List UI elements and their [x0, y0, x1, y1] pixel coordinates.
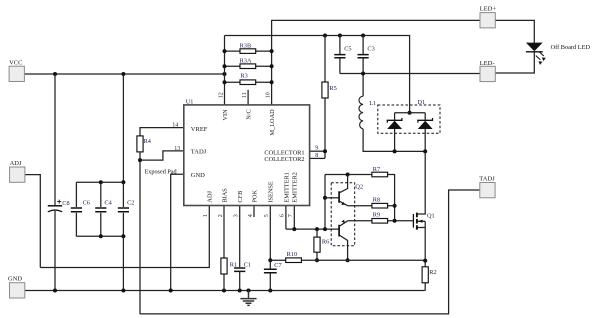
wire lower emitter — [340, 221, 348, 226]
resistor R3 — [240, 73, 256, 85]
wire D1 right diode leads — [424, 113, 426, 152]
junction gnd C8 — [53, 289, 57, 293]
capacitor C7 — [264, 262, 282, 273]
junction gnd C1 — [238, 289, 242, 293]
resistor R10 — [286, 251, 302, 263]
junction upper collector/R7 — [346, 173, 350, 177]
junction R2 top / Q1 source — [423, 259, 427, 263]
svg-text:C7: C7 — [274, 262, 281, 269]
wire Q1 drain — [418, 151, 426, 214]
svg-text:R8: R8 — [373, 196, 380, 203]
junction R8 right — [393, 204, 397, 208]
wire C-block top rail — [76, 181, 123, 183]
wire GND bus — [25, 290, 425, 292]
port VCC — [9, 59, 24, 81]
junction bottom rail C2 — [121, 234, 125, 238]
capacitor C6 — [71, 200, 90, 212]
wire pin 14 VREF — [140, 128, 184, 136]
junction upper base — [323, 196, 327, 200]
wire lower collector — [340, 235, 348, 260]
wire C5 branch — [339, 36, 341, 74]
U1 right pin labels — [264, 149, 304, 163]
junction pin7 bar — [292, 227, 296, 231]
port GND — [8, 275, 25, 298]
resistor R7 — [372, 166, 388, 177]
wire D1 left diode leads — [394, 113, 396, 152]
wire emitter bias bar — [286, 228, 339, 230]
wire VIN rail vertical pin 12 — [224, 36, 226, 105]
port LED- — [480, 60, 496, 82]
U1 bottom pin numbers (rotated) — [203, 214, 294, 217]
svg-text:R5: R5 — [329, 85, 336, 92]
port ADJ — [10, 160, 25, 182]
wire R3 row — [225, 81, 272, 83]
svg-text:LED+: LED+ — [480, 6, 497, 13]
wire upper collector — [340, 175, 348, 193]
svg-text:R9: R9 — [373, 211, 380, 218]
wire TADJ bottom run — [140, 190, 480, 314]
svg-text:ISENSE: ISENSE — [268, 181, 275, 202]
diode D1 (dual schottky, dashed package) — [378, 99, 440, 133]
junction gnd exposed pad — [169, 289, 173, 293]
U1 bottom pin name labels (rotated) — [207, 172, 299, 202]
wire pin 9 stub — [310, 150, 325, 152]
svg-text:C6: C6 — [83, 200, 90, 207]
capacitor C3 — [358, 45, 375, 57]
U1 top pin name labels (rotated) — [222, 109, 276, 136]
wire L1 bottom to anodes — [363, 129, 425, 152]
svg-text:GND: GND — [8, 275, 22, 282]
resistor R8 — [372, 196, 388, 208]
ground — [240, 291, 256, 306]
junction top rail C2 — [121, 180, 125, 184]
wire R8 row — [348, 205, 395, 207]
resistor R6 — [314, 237, 329, 252]
wire VCC rail — [25, 73, 225, 75]
junction bottom rail C4 — [99, 234, 103, 238]
capacitor C5 — [334, 45, 351, 57]
junction R9 right gate — [393, 219, 397, 223]
wire C8 branch — [54, 74, 56, 291]
capacitor C2 — [118, 200, 135, 212]
svg-text:C3: C3 — [367, 45, 374, 52]
svg-text:C4: C4 — [104, 200, 112, 207]
junction top rail C4 — [99, 180, 103, 184]
inductor L1 — [359, 96, 376, 129]
svg-text:N/C: N/C — [246, 109, 253, 120]
svg-text:R3B: R3B — [240, 42, 252, 49]
junction gnd R1 — [222, 289, 226, 293]
U1 pin number labels left/right — [172, 123, 318, 159]
wire R9 row gate — [348, 220, 414, 222]
port LED+ — [480, 6, 497, 28]
wire R2 leads — [424, 261, 426, 291]
wire sense row R10 — [270, 259, 425, 261]
LED (off board) — [526, 43, 591, 65]
junction R3A right — [270, 64, 274, 68]
svg-text:COLLECTOR2: COLLECTOR2 — [264, 156, 304, 163]
svg-text:D1: D1 — [417, 99, 425, 106]
resistor R2 — [422, 267, 437, 283]
wire Q1 body/source stubs — [418, 221, 426, 227]
svg-text:Q1: Q1 — [427, 212, 435, 219]
junction C3 bottom / L1 — [361, 72, 365, 76]
svg-text:CFB: CFB — [237, 191, 244, 203]
svg-text:2: 2 — [218, 214, 224, 217]
junction pin9/R5 — [323, 149, 327, 153]
svg-text:4: 4 — [248, 214, 254, 217]
wire C3-L1 branch — [362, 36, 364, 97]
junction gnd symbol — [247, 289, 251, 293]
svg-text:ADJ: ADJ — [10, 160, 22, 167]
wire R6 leads — [316, 229, 318, 260]
op-amp U1 (LED driver IC body) — [184, 99, 310, 206]
svg-text:TADJ: TADJ — [479, 176, 495, 183]
svg-text:Exposed Pad: Exposed Pad — [145, 168, 178, 175]
junction mirror vert bar — [323, 227, 327, 231]
junction VCC/VIN rail — [223, 72, 227, 76]
wire pin 4 stub — [253, 206, 255, 218]
wire pin 2 to R1 — [223, 206, 225, 291]
svg-text:R4: R4 — [144, 138, 152, 145]
transistor Q2 (dual PNP, dashed package) — [331, 183, 363, 246]
svg-text:LED-: LED- — [480, 60, 495, 67]
wire C-block bottom rail — [76, 235, 123, 237]
wire upper emitter — [340, 201, 348, 205]
svg-text:U1: U1 — [186, 99, 194, 106]
resistor R5 — [322, 82, 337, 98]
wire D1 cathode bar — [395, 112, 426, 114]
svg-text:Q2: Q2 — [355, 184, 363, 191]
resistor R9 — [372, 211, 388, 223]
junction gnd C7 — [268, 289, 272, 293]
junction R3B left — [223, 49, 227, 53]
svg-text:VREF: VREF — [191, 126, 208, 133]
capacitor C8 (polarized) — [48, 200, 70, 212]
resistor R1 — [221, 258, 237, 274]
svg-text:11: 11 — [242, 92, 248, 98]
junction R3 right — [270, 80, 274, 84]
wire C7 leads — [269, 260, 271, 290]
wire lamp to LED- — [495, 52, 534, 74]
svg-text:C1: C1 — [244, 261, 251, 268]
svg-text:C5: C5 — [344, 45, 351, 52]
junction sense node — [268, 258, 272, 262]
svg-text:EMITTER1: EMITTER1 — [283, 172, 290, 202]
junction VCC/C-block — [121, 72, 125, 76]
svg-text:C2: C2 — [127, 200, 134, 207]
wire C4 branch — [100, 182, 102, 236]
junction R3A left — [223, 64, 227, 68]
wire pin 13 jog — [140, 151, 184, 160]
wire R3B row — [225, 50, 272, 52]
wire R3A row — [225, 65, 272, 67]
svg-text:R7: R7 — [373, 166, 380, 173]
wire R4 bottom node — [139, 151, 141, 314]
resistor R3B — [240, 42, 256, 53]
svg-text:R3: R3 — [240, 73, 247, 80]
wire C6 branch — [75, 182, 77, 236]
svg-text:9: 9 — [315, 146, 318, 152]
wire pin 8 stub — [310, 157, 325, 159]
svg-text:BIAS: BIAS — [221, 188, 228, 203]
junction lower collector node — [346, 258, 350, 262]
wire M_LOAD rail pin 10 — [272, 20, 480, 105]
svg-text:10: 10 — [265, 92, 271, 98]
resistor R4 — [137, 136, 152, 152]
wire N/C stub pin 11 — [247, 90, 249, 105]
wire C-block feed — [122, 74, 124, 182]
junction R3 left — [223, 80, 227, 84]
svg-text:R3A: R3A — [240, 58, 252, 65]
wire ADJ entry — [24, 175, 40, 268]
wire C2 branch — [122, 182, 124, 236]
svg-text:1: 1 — [203, 214, 209, 217]
wire upper base — [325, 197, 338, 199]
junction R3B right — [270, 49, 274, 53]
svg-text:R6: R6 — [322, 239, 329, 246]
U1 top pin numbers (rotated) — [218, 92, 271, 98]
junction gnd C-block — [121, 289, 125, 293]
wire pin 7 stub — [293, 206, 295, 230]
junction R4/TADJ node — [138, 158, 142, 162]
svg-text:6: 6 — [280, 214, 286, 217]
wire pin 6 stub — [285, 206, 287, 230]
transistor Q1 (NMOS) — [413, 212, 434, 229]
wire pin 1 ADJ run — [40, 206, 209, 268]
port TADJ — [479, 176, 495, 198]
svg-text:12: 12 — [218, 92, 224, 98]
junction C3 top — [361, 34, 365, 38]
wire exposed pad — [171, 174, 184, 290]
svg-text:GND: GND — [191, 172, 205, 179]
svg-text:ADJ: ADJ — [207, 191, 214, 203]
svg-text:C8: C8 — [62, 200, 69, 207]
svg-text:14: 14 — [172, 123, 178, 129]
capacitor C1 — [234, 261, 251, 271]
wire R5 leads — [324, 36, 326, 159]
svg-text:VIN: VIN — [222, 109, 229, 121]
U1 left pin labels — [191, 126, 208, 179]
wire pin 5 to sense node — [269, 206, 271, 261]
junction right anode — [423, 149, 427, 153]
junction VCC/C8 — [53, 72, 57, 76]
wire mirror vertical — [324, 175, 326, 230]
junction R5 top — [323, 34, 327, 38]
svg-text:3: 3 — [234, 214, 240, 217]
svg-text:EMITTER2: EMITTER2 — [292, 172, 299, 202]
capacitor C4 — [95, 200, 112, 212]
wire C-block to gnd — [122, 236, 124, 290]
svg-text:R2: R2 — [429, 269, 436, 276]
svg-text:TADJ: TADJ — [191, 149, 207, 156]
svg-text:Off Board LED: Off Board LED — [551, 44, 591, 51]
junction left anode — [393, 149, 397, 153]
junction R6 bottom — [315, 258, 319, 262]
svg-text:5: 5 — [264, 214, 270, 217]
svg-text:POK: POK — [251, 190, 258, 203]
svg-text:VCC: VCC — [9, 59, 22, 66]
svg-text:7: 7 — [288, 214, 294, 217]
junction D1 common cathode — [408, 111, 412, 115]
resistor R3A — [240, 58, 256, 69]
wire pin 3 to C1 — [239, 206, 241, 291]
wire Q1 source — [424, 221, 426, 260]
svg-text:L1: L1 — [369, 100, 376, 107]
wire net SW top — [225, 36, 410, 113]
junction R6 top — [315, 227, 319, 231]
svg-text:8: 8 — [315, 153, 318, 159]
wire LED+ to lamp — [495, 20, 534, 42]
junction C5 top — [338, 34, 342, 38]
wire R7 row — [325, 175, 395, 221]
svg-text:R10: R10 — [287, 251, 298, 258]
svg-text:13: 13 — [174, 146, 180, 152]
wire LED- net — [340, 73, 480, 75]
svg-text:M_LOAD: M_LOAD — [269, 109, 276, 136]
